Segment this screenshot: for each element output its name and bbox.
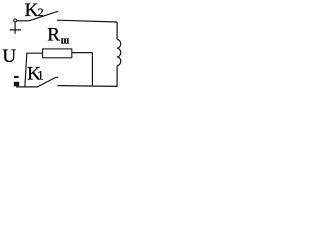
wire stub from K2 contact: [17, 20, 29, 22]
wire bottom left segment: [16, 86, 38, 88]
svg-text:K: K: [25, 0, 39, 21]
svg-text:ш: ш: [61, 35, 70, 46]
svg-text:U: U: [2, 46, 16, 67]
svg-text:R: R: [47, 25, 60, 46]
inductor coil L (electromagnet): [117, 40, 121, 66]
wire middle branch down to bottom: [91, 53, 93, 87]
switch K2 left contact circle: [14, 19, 17, 22]
resistor Rsh box: [43, 49, 72, 58]
wire left rail vertical: [25, 53, 27, 87]
battery negative plate: [14, 82, 19, 87]
wire right side upper vertical: [116, 22, 118, 40]
wire bottom right segment: [58, 85, 118, 88]
wire middle branch right: [72, 52, 93, 54]
battery plus polarity sign: [10, 22, 22, 34]
wire middle branch left: [26, 52, 42, 54]
svg-text:1: 1: [37, 68, 44, 83]
switch K1 blade: [38, 77, 59, 87]
wire right side lower vertical: [116, 66, 118, 87]
wire top fixed contact to right corner: [57, 20, 117, 22]
switch K2 blade: [29, 12, 58, 21]
svg-text:2: 2: [38, 5, 44, 19]
battery minus polarity sign: [14, 76, 19, 78]
